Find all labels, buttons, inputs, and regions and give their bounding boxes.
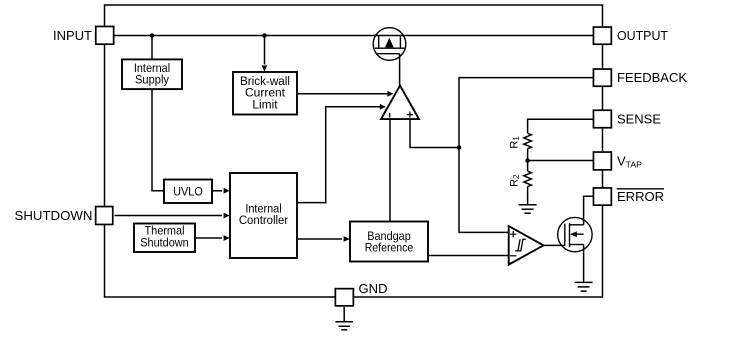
pin FEEDBACK (593, 69, 687, 86)
node junction on input rail to internal supply (150, 33, 155, 38)
wire right border FEEDBACK pin to OUTPUT pin (602, 45, 604, 68)
wire FEEDBACK pin left and down to comparator plus input (459, 78, 593, 233)
wire SHUTDOWN pin down to bottom rail to GND pin (105, 225, 335, 297)
bandgap reference block (350, 222, 428, 262)
svg-text:ERROR: ERROR (617, 189, 664, 204)
arrowhead brick-wall into error amp (387, 91, 393, 97)
transistor Q2 shutdown NMOS (558, 217, 592, 251)
wire error amp left leg down to bandgap reference (389, 119, 391, 221)
svg-text:OUTPUT: OUTPUT (617, 28, 668, 43)
arrowhead UVLO to internal controller (224, 188, 230, 194)
arrowhead thermal shutdown to internal controller (224, 235, 230, 241)
pin INPUT (53, 26, 114, 44)
svg-text:Limit: Limit (252, 97, 278, 111)
wire internal supply down and right to UVLO (152, 89, 164, 191)
wire error amp output up to pass transistor gate (399, 54, 401, 86)
resistor R2 (524, 171, 532, 186)
wire input rail down to internal supply (151, 36, 153, 60)
wire R2 bottom to ground (527, 187, 529, 205)
svg-text:GND: GND (359, 281, 388, 296)
wire between R1 and R2 (527, 149, 529, 172)
op-amp U1 error amplifier (381, 86, 419, 120)
node divider tap junction (525, 158, 530, 163)
arrowhead into bandgap reference (344, 236, 350, 242)
transistor Q1 PMOS pass element (373, 28, 406, 61)
wire internal controller output to bandgap reference (297, 238, 342, 240)
ground below shutdown transistor (575, 282, 593, 291)
internal supply block (122, 59, 182, 89)
wire shutdown transistor drain to ERROR pin (584, 196, 593, 225)
comparator U2 schmitt trigger (509, 226, 544, 265)
wire GND pin down to ground symbol (343, 307, 345, 322)
wire error amp right leg down to feedback node (410, 119, 459, 147)
internal controller block (230, 173, 297, 258)
svg-text:FEEDBACK: FEEDBACK (617, 70, 687, 85)
thermal shutdown block (134, 224, 195, 253)
wire main rail INPUT to OUTPUT through pass transistor (115, 35, 594, 37)
wire SHUTDOWN pin to internal controller (115, 215, 223, 217)
wire thermal shutdown output to internal controller (195, 237, 222, 239)
svg-text:Shutdown: Shutdown (140, 235, 189, 249)
pin SENSE (593, 110, 661, 128)
wire internal controller output up to error amp inverting input (297, 107, 381, 203)
pin VTAP (593, 152, 642, 170)
wire brick-wall current limit output to error amp (297, 93, 388, 95)
svg-text:Supply: Supply (135, 73, 170, 87)
resistor R1 (524, 133, 532, 148)
UVLO block (164, 180, 212, 204)
wire right border VTAP pin to SENSE pin (602, 129, 604, 152)
wire bottom rail GND pin to right border up to ERROR pin (354, 206, 603, 297)
svg-text:Controller: Controller (239, 213, 288, 227)
ground below R2 (519, 205, 537, 214)
arrowhead into brick-wall current limit (262, 66, 268, 72)
ground below GND pin (335, 322, 353, 330)
svg-text:UVLO: UVLO (173, 185, 203, 199)
wire UVLO output to internal controller (212, 190, 222, 192)
arrowhead controller into error amp (380, 104, 386, 110)
wire comparator output to shutdown transistor gate (544, 244, 565, 246)
node feedback junction (457, 145, 462, 150)
svg-text:Reference: Reference (365, 241, 414, 255)
wire bandgap reference output to comparator minus input (428, 255, 509, 257)
wire right border SENSE pin to FEEDBACK pin (602, 87, 604, 109)
svg-text:INPUT: INPUT (53, 28, 92, 43)
svg-text:SHUTDOWN: SHUTDOWN (15, 208, 93, 223)
brick-wall current limit block (233, 72, 297, 115)
wire top rail from INPUT pin up across to OUTPUT pin (105, 5, 603, 26)
node junction on input rail to brick-wall current limit (262, 33, 267, 38)
pin GND (335, 281, 387, 306)
svg-text:SENSE: SENSE (617, 112, 661, 127)
wire left border INPUT pin to SHUTDOWN pin (104, 45, 106, 206)
wire SENSE pin to top of resistor divider (528, 119, 593, 133)
wire right border ERROR pin to VTAP pin (602, 171, 604, 187)
wire input rail down to brick-wall current limit (264, 36, 266, 65)
arrowhead SHUTDOWN to internal controller (224, 213, 230, 219)
pin ERROR (active low) (593, 188, 664, 205)
wire divider tap to VTAP pin (528, 160, 593, 162)
pin OUTPUT (593, 27, 668, 44)
pin SHUTDOWN (15, 207, 113, 225)
wire shutdown transistor source to ground (583, 245, 585, 283)
